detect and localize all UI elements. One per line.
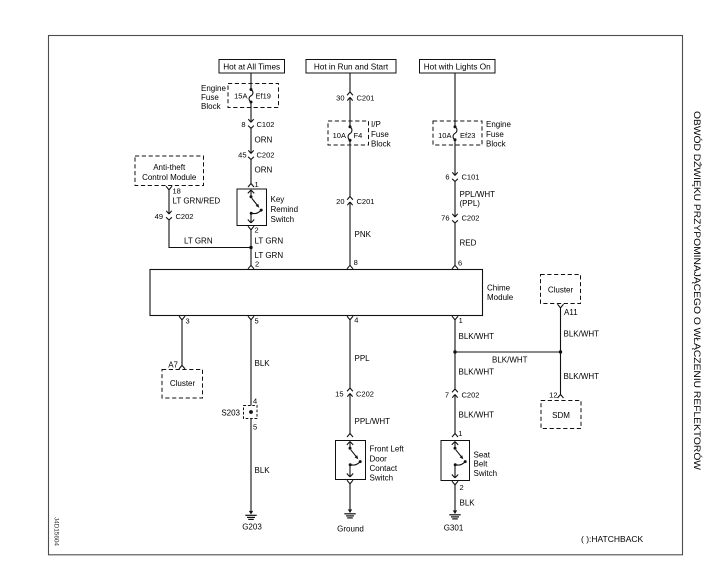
Front Left Door Contact Switch symbol bbox=[347, 442, 350, 445]
svg-text:ORN: ORN bbox=[255, 136, 273, 145]
svg-text:10A: 10A bbox=[438, 131, 451, 140]
connector 45 C202 bbox=[248, 150, 251, 153]
svg-text:C202: C202 bbox=[356, 390, 374, 399]
pin 2 of Chime Module bbox=[248, 265, 251, 269]
svg-text:ORN: ORN bbox=[255, 166, 273, 175]
svg-text:G301: G301 bbox=[444, 524, 464, 533]
svg-text:Switch: Switch bbox=[474, 469, 498, 478]
svg-text:BLK/WHT: BLK/WHT bbox=[564, 372, 600, 381]
wire C201 to I/P fuse bbox=[349, 97, 351, 126]
power box Hot in Run and Start bbox=[306, 60, 396, 74]
svg-text:Block: Block bbox=[201, 102, 222, 111]
pin 6 of Chime Module bbox=[452, 265, 455, 269]
fuse 15A Ef19 bbox=[250, 88, 253, 91]
power box Hot with Lights On bbox=[420, 60, 496, 74]
svg-text:Front Left: Front Left bbox=[370, 445, 405, 454]
pin 8 of Chime Module bbox=[347, 265, 350, 269]
svg-text:RED: RED bbox=[460, 239, 477, 248]
wire C201 to chime pin 8, PNK bbox=[349, 202, 351, 265]
svg-text:BLK/WHT: BLK/WHT bbox=[492, 356, 528, 365]
svg-text:C102: C102 bbox=[257, 120, 275, 129]
svg-text:BLK/WHT: BLK/WHT bbox=[459, 367, 495, 376]
wire chime pin 3 to cluster A7 bbox=[181, 320, 183, 366]
wire C102 to C202, ORN bbox=[250, 128, 252, 153]
svg-text:Key: Key bbox=[271, 195, 285, 204]
wire C202 to chime pin 6, RED bbox=[454, 223, 456, 265]
pin A7 of Cluster bbox=[179, 365, 182, 369]
svg-text:C202: C202 bbox=[176, 212, 194, 221]
svg-text:Contact: Contact bbox=[370, 464, 398, 473]
svg-text:BLK: BLK bbox=[460, 499, 476, 508]
svg-text:4: 4 bbox=[253, 397, 257, 406]
ground G203 bbox=[249, 511, 253, 515]
svg-text:45: 45 bbox=[238, 151, 246, 160]
Seat Belt Switch symbol bbox=[452, 442, 455, 445]
svg-text:OBWÓD DŹWIĘKU PRZYPOMINAJĄCEGO: OBWÓD DŹWIĘKU PRZYPOMINAJĄCEGO O WŁĄCZEN… bbox=[692, 111, 702, 471]
svg-text:15: 15 bbox=[335, 390, 343, 399]
svg-text:15A: 15A bbox=[234, 92, 247, 101]
svg-text:Cluster: Cluster bbox=[548, 286, 574, 295]
wire C202 to seat belt switch, BLK/WHT bbox=[454, 395, 456, 434]
Front Left Door Contact Switch box bbox=[336, 441, 366, 480]
SDM dashed box bbox=[541, 401, 581, 429]
svg-text:PPL/WHT: PPL/WHT bbox=[460, 190, 496, 199]
pin 2 of Key Remind Switch bbox=[248, 226, 251, 230]
svg-text:A11: A11 bbox=[564, 308, 578, 317]
pin out of door switch bbox=[347, 480, 350, 484]
wire fuse to C102 bbox=[250, 102, 252, 122]
wire C101 to C202, PPL/WHT (PPL) bbox=[454, 182, 456, 218]
svg-text:I/P: I/P bbox=[371, 120, 381, 129]
svg-text:5: 5 bbox=[253, 423, 257, 432]
svg-text:5: 5 bbox=[255, 317, 259, 326]
connector 8 C102 bbox=[248, 119, 251, 122]
svg-text:( ):HATCHBACK: ( ):HATCHBACK bbox=[581, 534, 644, 544]
pin 1 of Seat Belt Switch bbox=[452, 434, 455, 438]
svg-text:PPL: PPL bbox=[355, 354, 371, 363]
wire fuse to C201 bbox=[349, 140, 351, 196]
svg-text:S203: S203 bbox=[221, 409, 240, 418]
svg-text:C201: C201 bbox=[357, 197, 375, 206]
svg-text:Engine: Engine bbox=[201, 84, 226, 93]
connector 15 C202 bbox=[347, 388, 350, 391]
svg-text:Cluster: Cluster bbox=[170, 379, 196, 388]
splice S203 dashed box bbox=[244, 406, 258, 419]
connector 6 C101 bbox=[452, 172, 455, 175]
svg-text:18: 18 bbox=[173, 187, 181, 196]
fuse 10A Ef23 bbox=[454, 125, 457, 128]
svg-text:C202: C202 bbox=[257, 151, 275, 160]
connector 7 C202 bbox=[452, 389, 455, 392]
svg-text:LT GRN: LT GRN bbox=[255, 237, 284, 246]
pin 18 of Anti-theft Control Module bbox=[166, 186, 169, 190]
svg-text:Door: Door bbox=[370, 454, 388, 463]
wire fuse to C101 bbox=[454, 140, 456, 176]
svg-text:BLK/WHT: BLK/WHT bbox=[459, 332, 495, 341]
wire junction to SDM, BLK/WHT bbox=[560, 352, 562, 395]
wire C202 to Key Remind Switch, ORN bbox=[250, 160, 252, 184]
wire BLK/WHT horizontal junction to cluster branch bbox=[455, 351, 561, 353]
wire chime pin 4 to C202, PPL bbox=[349, 320, 351, 388]
svg-text:Block: Block bbox=[486, 140, 507, 149]
svg-text:SDM: SDM bbox=[552, 411, 570, 420]
svg-text:J4D15604: J4D15604 bbox=[53, 517, 60, 546]
Engine Fuse Block (left) dashed box bbox=[228, 84, 279, 108]
svg-text:76: 76 bbox=[441, 214, 449, 223]
pin 1 of Key Remind Switch bbox=[248, 184, 251, 188]
svg-text:Remind: Remind bbox=[271, 205, 299, 214]
svg-text:1: 1 bbox=[255, 180, 259, 189]
svg-text:Control Module: Control Module bbox=[142, 173, 197, 182]
power box Hot at All Times bbox=[219, 60, 285, 74]
svg-text:Ground: Ground bbox=[337, 525, 364, 534]
pin into Front Left Door Contact Switch bbox=[347, 434, 350, 438]
svg-text:20: 20 bbox=[336, 197, 344, 206]
svg-text:LT GRN: LT GRN bbox=[184, 237, 213, 246]
wire chime pin 1 down, BLK/WHT bbox=[454, 320, 456, 352]
wire anti-theft to C202, LT GRN/RED bbox=[168, 190, 170, 214]
wire junction to C202, BLK/WHT bbox=[454, 352, 456, 389]
I/P Fuse Block dashed box bbox=[328, 121, 369, 145]
wire seat belt switch to G301, BLK bbox=[454, 485, 456, 511]
wire C202 to door switch, PPL/WHT bbox=[349, 394, 351, 434]
svg-text:BLK: BLK bbox=[255, 466, 271, 475]
Key Remind Switch U1 box bbox=[237, 189, 267, 226]
svg-text:10A: 10A bbox=[333, 131, 346, 140]
pin 1 of Chime Module bbox=[452, 316, 455, 320]
svg-text:BLK: BLK bbox=[255, 359, 271, 368]
svg-text:BLK/WHT: BLK/WHT bbox=[459, 410, 495, 419]
Cluster (left) dashed box bbox=[162, 370, 203, 399]
svg-text:C202: C202 bbox=[462, 214, 480, 223]
svg-text:Fuse: Fuse bbox=[371, 130, 389, 139]
svg-text:Ef19: Ef19 bbox=[256, 92, 271, 101]
Key Remind Switch symbol bbox=[248, 190, 251, 193]
svg-text:Switch: Switch bbox=[370, 474, 394, 483]
junction LT GRN node bbox=[249, 246, 252, 249]
wire Hot in Run and Start down bbox=[349, 73, 351, 92]
ground G301 bbox=[453, 510, 457, 514]
Engine Fuse Block (right) dashed box bbox=[433, 121, 482, 145]
svg-text:Switch: Switch bbox=[271, 215, 295, 224]
svg-text:Block: Block bbox=[371, 140, 392, 149]
svg-text:Belt: Belt bbox=[474, 460, 489, 469]
svg-text:6: 6 bbox=[445, 173, 449, 182]
svg-text:C101: C101 bbox=[462, 173, 480, 182]
svg-text:2: 2 bbox=[460, 483, 464, 492]
pin 3 of Chime Module bbox=[179, 316, 182, 320]
svg-text:4: 4 bbox=[354, 315, 358, 324]
svg-text:LT GRN/RED: LT GRN/RED bbox=[173, 197, 221, 206]
svg-text:12: 12 bbox=[549, 391, 557, 400]
connector 30 C201 bbox=[347, 92, 350, 95]
svg-text:Anti-theft: Anti-theft bbox=[153, 163, 186, 172]
svg-text:Module: Module bbox=[487, 293, 514, 302]
svg-text:2: 2 bbox=[255, 226, 259, 235]
svg-text:PPL/WHT: PPL/WHT bbox=[355, 417, 391, 426]
connector 76 C202 bbox=[452, 214, 455, 217]
svg-text:G203: G203 bbox=[242, 523, 262, 532]
svg-text:Ef23: Ef23 bbox=[460, 131, 475, 140]
svg-text:F4: F4 bbox=[354, 131, 363, 140]
svg-text:3: 3 bbox=[186, 317, 190, 326]
svg-text:Hot with Lights On: Hot with Lights On bbox=[424, 63, 491, 72]
connector 49 C202 bbox=[166, 211, 169, 214]
svg-text:1: 1 bbox=[459, 316, 463, 325]
svg-text:30: 30 bbox=[336, 93, 344, 102]
pin 2 of Seat Belt Switch bbox=[452, 481, 455, 485]
svg-text:A7: A7 bbox=[168, 361, 178, 370]
svg-text:7: 7 bbox=[445, 391, 449, 400]
svg-text:(PPL): (PPL) bbox=[460, 199, 481, 208]
svg-text:6: 6 bbox=[458, 258, 462, 267]
svg-text:49: 49 bbox=[155, 212, 163, 221]
ground symbol Ground bbox=[348, 509, 352, 513]
wire switch to chime pin 2, LT GRN bbox=[250, 230, 252, 265]
svg-text:Engine: Engine bbox=[486, 120, 511, 129]
wire Hot with Lights On down bbox=[454, 73, 456, 127]
fuse 10A F4 bbox=[349, 125, 352, 128]
svg-text:Chime: Chime bbox=[487, 284, 511, 293]
wire door switch to Ground bbox=[349, 484, 351, 510]
pin 4 of Chime Module bbox=[347, 316, 350, 320]
Seat Belt Switch box bbox=[441, 441, 470, 481]
svg-text:BLK/WHT: BLK/WHT bbox=[564, 330, 600, 339]
svg-text:Seat: Seat bbox=[474, 451, 491, 460]
Chime Module U2 box bbox=[150, 270, 483, 316]
svg-text:C202: C202 bbox=[462, 391, 480, 400]
svg-text:8: 8 bbox=[354, 258, 358, 267]
wire Hot at All Times to Engine Fuse Block bbox=[250, 73, 252, 90]
pin 5 of Chime Module bbox=[248, 316, 251, 320]
border frame bbox=[49, 36, 683, 555]
wire C202 down then right to LT GRN junction bbox=[168, 220, 170, 248]
junction node right BLK/WHT bbox=[559, 350, 562, 353]
svg-text:PNK: PNK bbox=[355, 230, 372, 239]
Cluster (right) dashed box bbox=[541, 275, 581, 304]
wire cluster A11 to junction, BLK/WHT bbox=[560, 308, 562, 352]
pin A11 of Cluster bbox=[558, 304, 561, 308]
Anti-theft Control Module dashed box bbox=[135, 156, 204, 186]
svg-text:8: 8 bbox=[241, 120, 245, 129]
wire S203 to G203, BLK bbox=[250, 419, 252, 511]
svg-text:Fuse: Fuse bbox=[486, 130, 504, 139]
svg-text:Fuse: Fuse bbox=[201, 93, 219, 102]
connector 20 C201 bbox=[347, 197, 350, 200]
svg-text:1: 1 bbox=[458, 429, 462, 438]
svg-text:Hot in Run and Start: Hot in Run and Start bbox=[314, 63, 389, 72]
svg-text:Hot at All Times: Hot at All Times bbox=[223, 63, 280, 72]
wire chime pin 5 to S203, BLK bbox=[250, 320, 252, 406]
svg-text:2: 2 bbox=[255, 260, 259, 269]
svg-text:C201: C201 bbox=[357, 93, 375, 102]
junction node BLK/WHT bbox=[453, 350, 456, 353]
